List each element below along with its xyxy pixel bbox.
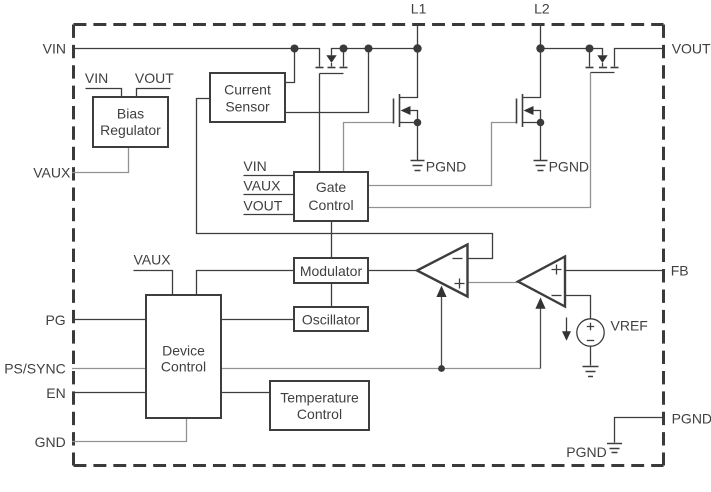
block Temperature Control xyxy=(270,381,369,430)
svg-text:Oscillator: Oscillator xyxy=(302,312,361,328)
wire device control to modulator xyxy=(197,271,295,296)
svg-text:Modulator: Modulator xyxy=(300,263,363,279)
bias regulator VIN input label xyxy=(85,70,122,97)
node dot P2 drain rail xyxy=(586,45,594,53)
op-amp comparator1 xyxy=(417,245,468,297)
svg-text:Control: Control xyxy=(308,197,353,213)
pin label GND xyxy=(35,434,66,450)
wire PS/SYNC pin xyxy=(72,368,146,370)
block Current Sensor xyxy=(210,73,285,122)
block Gate Control xyxy=(294,172,368,221)
ground PGND under N1 xyxy=(411,158,467,174)
svg-text:VAUX: VAUX xyxy=(33,165,71,181)
gate control VIN input label xyxy=(243,158,294,176)
svg-text:L2: L2 xyxy=(534,1,550,17)
node dot rail lower tap xyxy=(365,45,373,53)
pin label VOUT xyxy=(672,41,711,57)
arrowhead into comparator1 xyxy=(436,286,446,298)
svg-text:EN: EN xyxy=(46,385,65,401)
wire GND pin to device control xyxy=(72,418,187,442)
pin label PGND right edge xyxy=(672,410,711,426)
wire gate control to N1 gate xyxy=(344,123,394,173)
node dot L2 xyxy=(536,44,544,52)
svg-text:Regulator: Regulator xyxy=(100,122,161,138)
svg-text:Control: Control xyxy=(297,406,342,422)
svg-text:VIN: VIN xyxy=(243,158,266,174)
pin label FB xyxy=(671,262,689,278)
wire gate control to N2 gate xyxy=(368,123,517,186)
block Oscillator xyxy=(294,307,368,331)
svg-text:VAUX: VAUX xyxy=(243,177,281,193)
block Device Control xyxy=(146,295,221,418)
transistor N1 low-side switch xyxy=(394,49,422,161)
junction dot on comparator bus xyxy=(438,365,445,372)
svg-text:L1: L1 xyxy=(411,1,427,17)
wire VIN rail to P1 drain xyxy=(72,49,320,67)
wire VREF to ground xyxy=(590,347,592,366)
voltage source VREF xyxy=(577,318,648,347)
wire gate control to modulator xyxy=(331,221,333,258)
wire current sensor upper tap xyxy=(285,49,295,83)
bias regulator VOUT input label xyxy=(135,70,174,97)
arrowhead into comparator2 xyxy=(535,297,545,308)
svg-text:VOUT: VOUT xyxy=(135,70,174,86)
IC boundary dashed border xyxy=(74,25,664,466)
pin label PG xyxy=(45,312,65,328)
wire comparator2 minus to VREF xyxy=(565,296,591,320)
pin label VAUX xyxy=(33,165,71,181)
wire device control to oscillator xyxy=(221,319,294,321)
pin label VIN xyxy=(43,41,66,57)
wire VAUX pin to bias regulator xyxy=(72,147,129,173)
gate control VOUT input label xyxy=(243,197,294,214)
wire EN pin xyxy=(72,392,146,394)
wire comparator2 output to comparator1 plus xyxy=(468,282,519,284)
transistor P1 high-side switch xyxy=(316,49,348,74)
svg-text:GND: GND xyxy=(35,434,66,450)
node dot VIN rail current sensor tap xyxy=(291,45,299,53)
wire PGND pin to ground xyxy=(615,418,664,443)
svg-text:FB: FB xyxy=(671,262,689,278)
svg-text:Gate: Gate xyxy=(316,179,347,195)
wire L2 pin stub xyxy=(540,24,542,49)
op-amp comparator2 error amp xyxy=(518,257,565,307)
svg-text:VIN: VIN xyxy=(43,41,66,57)
current direction arrow beside VREF xyxy=(562,318,571,341)
transistor P2 high-side output switch xyxy=(586,49,619,73)
block Bias Regulator xyxy=(93,97,168,147)
gate control VAUX input label xyxy=(243,177,294,194)
wire device control comparator bus xyxy=(221,368,541,370)
svg-text:VOUT: VOUT xyxy=(243,197,282,213)
wire FB pin to comparator2 xyxy=(565,270,663,272)
device control VAUX input label xyxy=(134,252,173,295)
svg-text:PG: PG xyxy=(45,312,65,328)
svg-text:PGND: PGND xyxy=(672,410,711,426)
wire current sensor lower tap xyxy=(285,49,369,113)
wire modulator to comparator1 output xyxy=(368,270,417,272)
wire P1 gate to gate control xyxy=(319,74,321,173)
wire rail L2 to P2 drain xyxy=(541,49,590,67)
pin label EN xyxy=(46,385,65,401)
node dot P1 source rail xyxy=(340,45,348,53)
ground PGND bottom right xyxy=(566,444,622,460)
svg-text:Sensor: Sensor xyxy=(225,98,270,114)
svg-text:Bias: Bias xyxy=(117,106,144,122)
pin label PS/SYNC xyxy=(4,361,65,377)
wire feedback loop current sensor to comparator minus xyxy=(197,99,493,259)
svg-text:VIN: VIN xyxy=(85,70,108,86)
svg-text:PGND: PGND xyxy=(566,444,606,460)
svg-text:Current: Current xyxy=(224,82,271,98)
svg-text:Temperature: Temperature xyxy=(280,390,359,406)
pin label L2 xyxy=(534,1,550,17)
svg-text:VAUX: VAUX xyxy=(134,252,172,268)
block Modulator xyxy=(294,258,368,283)
svg-text:PGND: PGND xyxy=(426,158,466,174)
wire PG pin xyxy=(72,319,146,321)
wire modulator to oscillator xyxy=(331,283,333,307)
wire L1 pin stub xyxy=(417,24,419,49)
node dot L1 xyxy=(413,44,421,52)
ground PGND under N2 xyxy=(534,158,590,174)
svg-text:VOUT: VOUT xyxy=(672,41,711,57)
svg-text:PS/SYNC: PS/SYNC xyxy=(4,361,65,377)
wire arrow shaft to comparator1 xyxy=(441,297,443,369)
transistor N2 low-side switch xyxy=(517,49,545,161)
wire P1 source stub and rail to L1 xyxy=(344,49,418,67)
svg-text:Control: Control xyxy=(161,359,206,375)
wire P2 source stub to VOUT pin xyxy=(615,49,664,67)
svg-text:Device: Device xyxy=(162,343,205,359)
ground under VREF xyxy=(583,367,599,377)
svg-text:VREF: VREF xyxy=(611,318,648,334)
wire gate control to P2 gate xyxy=(368,73,591,208)
pin label L1 xyxy=(411,1,427,17)
svg-text:PGND: PGND xyxy=(549,158,589,174)
wire device control to temperature control xyxy=(221,392,270,394)
wire arrow shaft to comparator2 xyxy=(540,308,542,369)
